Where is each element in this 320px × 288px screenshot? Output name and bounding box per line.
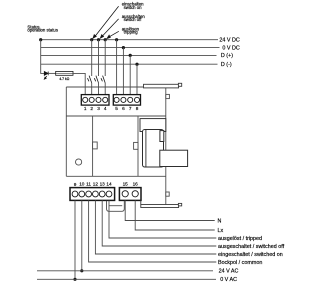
svg-text:switch off: switch off: [124, 17, 143, 22]
svg-text:9: 9: [74, 182, 77, 187]
pin labels 1-8: [84, 106, 139, 111]
wire terminal 14 to ausgelöst: [109, 200, 216, 238]
terminal 6: [121, 97, 126, 102]
wire D(+) bus line: [41, 54, 217, 56]
svg-text:N: N: [218, 218, 222, 224]
arrow einschalten: [93, 6, 119, 38]
svg-text:eingeschaltet / switched on: eingeschaltet / switched on: [218, 252, 283, 258]
svg-text:1: 1: [84, 106, 87, 111]
device body outline: [66, 87, 166, 205]
terminal 9: [72, 191, 78, 197]
top right tab: [166, 94, 170, 98]
switch S1 einschalten contact: [88, 76, 92, 83]
wire terminal 7 feed: [129, 55, 131, 94]
svg-text:ausgelöst / tripped: ausgelöst / tripped: [218, 236, 262, 242]
device clip 1: [93, 142, 98, 149]
svg-text:Bockpol / common: Bockpol / common: [218, 260, 262, 266]
svg-text:Lx: Lx: [218, 228, 224, 234]
wire terminal 15 to N: [125, 200, 215, 220]
terminal box 3 (9-14): [70, 188, 115, 201]
wire terminal 16 to Lx: [135, 200, 215, 230]
wire 0 V AC line: [37, 278, 216, 280]
wire 24 V AC line: [37, 270, 213, 272]
wire switch1 upper: [91, 40, 93, 76]
terminal 11: [86, 191, 92, 197]
wire terminal 8 feed: [136, 64, 138, 94]
node junction dot terminal7 on D(+): [129, 54, 132, 57]
svg-text:4.7 kΩ: 4.7 kΩ: [59, 77, 69, 81]
switch S2 ausschalten contact: [94, 76, 98, 83]
svg-text:0 V AC: 0 V AC: [220, 277, 237, 283]
node junction dot switch2 on 24VDC: [97, 38, 100, 41]
svg-text:14: 14: [106, 182, 112, 187]
terminal 15: [122, 191, 128, 197]
wire switch2 upper: [98, 40, 100, 76]
breaker lever: [160, 150, 188, 166]
terminal 13: [99, 191, 105, 197]
svg-text:operation status: operation status: [27, 28, 58, 33]
terminal box 4 (15-16): [119, 188, 141, 201]
terminal 1: [83, 97, 88, 102]
terminal 10: [79, 191, 85, 197]
wire diode to resistor: [48, 72, 56, 74]
wire switch1 lower: [91, 83, 93, 95]
terminal 7: [128, 97, 133, 102]
top busbar: [144, 84, 179, 88]
terminal 8: [134, 97, 139, 102]
device divider 2: [137, 116, 139, 176]
wire terminal 11 to Bockpol: [89, 200, 217, 262]
wire switch3 upper: [104, 40, 106, 76]
svg-text:D (+): D (+): [221, 53, 233, 59]
svg-text:ausgeschaltet / switched off: ausgeschaltet / switched off: [218, 244, 285, 250]
arrow ausschalten: [100, 19, 118, 38]
resistor 4.7 kOhm: [56, 71, 73, 75]
wire resistor to terminal 1: [73, 73, 85, 94]
bottom busbar: [141, 205, 179, 208]
svg-text:12: 12: [93, 182, 99, 187]
device divider 1: [92, 116, 94, 176]
terminal box 2 (5-8): [113, 95, 140, 106]
node junction dot switch3 on 24VDC: [104, 38, 107, 41]
wire 24 V DC bus line: [41, 39, 218, 41]
breaker rotor block: [143, 130, 164, 168]
wire terminal 6 feed: [122, 48, 124, 95]
pin labels 9-16: [74, 182, 139, 187]
node junction dot terminal 9 on 0VAC: [73, 278, 76, 281]
wire terminal 13 to ausgeschaltet: [102, 200, 216, 246]
node junction dot terminal5 on 24VDC: [115, 38, 118, 41]
node junction dot terminal6 on 0VDC: [122, 46, 125, 49]
wire terminal 5 feed: [116, 40, 118, 95]
device LED indicator circle: [76, 159, 82, 165]
diode LED V1: [44, 72, 48, 80]
node junction dot status rail on 24VDC: [39, 38, 42, 41]
svg-text:15: 15: [123, 182, 129, 187]
wire switch3 lower: [104, 83, 106, 95]
wire terminal 9 to 0 V AC: [74, 200, 76, 279]
svg-text:11: 11: [86, 182, 91, 187]
svg-text:7: 7: [129, 106, 132, 111]
terminal 16: [132, 191, 138, 197]
terminal 3: [96, 97, 101, 102]
svg-text:6: 6: [122, 106, 125, 111]
terminal 12: [93, 191, 99, 197]
wire switch2 lower: [98, 83, 100, 95]
svg-text:16: 16: [133, 182, 139, 187]
switch S3 auslösen contact: [101, 76, 105, 83]
wire 0 V DC bus line: [41, 47, 220, 49]
svg-text:5: 5: [115, 106, 118, 111]
device clip 2: [134, 142, 138, 149]
bottom mount bracket: [107, 201, 125, 212]
breaker handle housing: [140, 119, 166, 132]
svg-text:24 V AC: 24 V AC: [219, 269, 239, 275]
terminal 14: [106, 191, 112, 197]
terminal 2: [89, 97, 94, 102]
svg-text:24 V DC: 24 V DC: [219, 37, 239, 43]
wire D(-) bus line: [41, 63, 218, 65]
wire terminal 10 to 24 V AC: [81, 200, 83, 270]
svg-text:13: 13: [100, 182, 106, 187]
wire terminal 12 to eingeschaltet: [95, 200, 216, 254]
svg-text:0 V DC: 0 V DC: [222, 45, 239, 51]
svg-text:D (-): D (-): [221, 62, 232, 68]
svg-text:10: 10: [79, 182, 85, 187]
wire status rail: [41, 40, 45, 74]
svg-text:4: 4: [104, 106, 107, 111]
svg-text:2: 2: [90, 106, 93, 111]
terminal 5: [114, 97, 119, 102]
arrow auslösen: [107, 31, 119, 38]
svg-text:tripping: tripping: [124, 30, 139, 35]
node junction dot switch1 on 24VDC: [90, 38, 93, 41]
svg-text:switch on: switch on: [124, 5, 143, 10]
terminal box 1 (1-4): [81, 95, 109, 106]
node junction dot terminal 10 on 24VAC: [80, 269, 83, 272]
bottom right tab: [166, 192, 169, 196]
node junction dot terminal8 on D(-): [135, 63, 138, 66]
terminal 4: [103, 97, 108, 102]
svg-text:8: 8: [136, 106, 139, 111]
svg-text:3: 3: [97, 106, 100, 111]
